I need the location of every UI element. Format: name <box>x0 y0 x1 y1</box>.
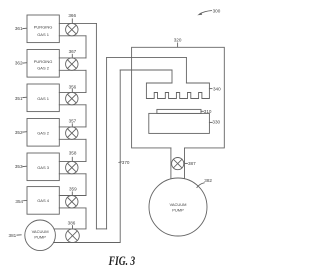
gas source box 361 (PURGING GAS 1) <box>27 15 59 43</box>
svg-text:FIG. 3: FIG. 3 <box>108 253 136 268</box>
svg-text:PURGING: PURGING <box>34 59 53 64</box>
leader dash for label 381 <box>17 234 21 236</box>
svg-text:366: 366 <box>68 13 76 18</box>
svg-text:357: 357 <box>69 119 77 124</box>
svg-text:358: 358 <box>69 150 77 155</box>
leader dash for label 310 <box>201 110 203 112</box>
wire: manifold riser left wall segment 1 <box>85 36 87 58</box>
svg-text:GAS 1: GAS 1 <box>37 96 50 101</box>
wire: pipe 370 left wall <box>106 58 108 229</box>
showerhead 340 stem left wall <box>171 70 173 83</box>
svg-text:PUMP: PUMP <box>172 207 184 212</box>
wire: manifold riser left wall segment 4 <box>85 139 87 161</box>
gas source box 351 (GAS 1) <box>27 84 59 112</box>
leader dash for label 352 <box>23 131 27 133</box>
wire: branch pipe 3 bottom wall <box>59 104 86 106</box>
wire: chamber feed pipe bottom wall <box>120 69 172 71</box>
leader dash for label 362 <box>23 62 27 64</box>
wire: branch pipe 6 bottom wall <box>59 207 86 209</box>
svg-text:381: 381 <box>9 233 17 238</box>
svg-text:GAS 2: GAS 2 <box>37 131 50 136</box>
leader dash for label 330 <box>209 121 212 123</box>
process chamber 320 outline <box>132 47 225 148</box>
svg-text:310: 310 <box>204 109 212 114</box>
gas source box 362 (PURGING GAS 2) <box>27 50 59 78</box>
gas source box 352 (GAS 2) <box>27 119 59 147</box>
leader dash for label 387 <box>185 162 188 164</box>
svg-text:GAS 3: GAS 3 <box>37 165 50 170</box>
leader dash for label 361 <box>23 27 27 29</box>
wire: manifold riser left wall segment 3 <box>85 105 87 127</box>
leader dash for label 351 <box>23 96 27 98</box>
svg-text:361: 361 <box>15 26 23 31</box>
valve 366 <box>66 19 78 36</box>
wire: branch pipe 2 top wall <box>59 57 86 59</box>
svg-text:330: 330 <box>212 120 220 125</box>
svg-text:GAS 2: GAS 2 <box>37 65 50 70</box>
wire: chamber exhaust neck right wall <box>184 148 186 180</box>
svg-text:386: 386 <box>68 220 76 225</box>
wire: branch pipe 1 bottom wall <box>59 35 86 37</box>
wire: chamber exhaust neck left wall <box>170 148 172 179</box>
valve 356 <box>66 89 78 105</box>
svg-text:367: 367 <box>69 49 77 54</box>
valve 359 <box>66 192 78 208</box>
wire: bottom cap between riser and pipe 370 <box>96 228 106 230</box>
wire: manifold riser left wall segment 6 + pump pipe top wall <box>54 208 86 229</box>
svg-text:340: 340 <box>213 87 221 92</box>
svg-text:362: 362 <box>15 61 23 66</box>
wire: branch pipe 5 top wall <box>59 160 86 162</box>
vacuum pump 381 circle <box>25 220 56 251</box>
svg-text:382: 382 <box>204 178 212 183</box>
leader dash for label 353 <box>23 165 27 167</box>
substrate 310 <box>157 109 201 113</box>
vacuum pump 382 circle <box>149 178 207 236</box>
wire: manifold riser left wall segment 5 <box>85 174 87 196</box>
valve 387 <box>172 158 184 170</box>
showerhead 340 body with nozzles <box>146 83 209 99</box>
svg-text:VACUUM: VACUUM <box>169 202 186 207</box>
wire: chamber feed pipe top wall <box>107 57 187 59</box>
leader curve for label 382 <box>197 183 204 188</box>
gas source box 354 (GAS 4) <box>27 187 59 215</box>
svg-text:354: 354 <box>15 199 23 204</box>
wire: branch pipe 2 bottom wall <box>59 69 86 71</box>
gas source box 353 (GAS 3) <box>27 153 59 181</box>
wire: bottom pipe bottom wall + pipe 370 right wall <box>54 70 121 243</box>
svg-text:320: 320 <box>174 38 182 43</box>
svg-text:PURGING: PURGING <box>34 25 53 30</box>
svg-text:387: 387 <box>188 161 196 166</box>
valve 357 <box>66 124 78 140</box>
wire: branch pipe 4 bottom wall <box>59 138 86 140</box>
svg-text:353: 353 <box>15 164 23 169</box>
svg-text:GAS 4: GAS 4 <box>37 198 50 203</box>
wire: branch pipe 4 top wall <box>59 126 86 128</box>
wire: manifold riser right wall <box>95 23 97 229</box>
svg-text:356: 356 <box>69 84 77 89</box>
svg-text:370: 370 <box>122 160 130 165</box>
valve 386 <box>66 226 80 243</box>
wire: manifold riser left wall segment 2 <box>85 70 87 92</box>
svg-text:GAS 1: GAS 1 <box>37 32 50 37</box>
svg-text:359: 359 <box>69 186 77 191</box>
valve 367 <box>66 54 78 70</box>
susceptor 330 <box>149 113 210 133</box>
leader arrow for label 300 <box>200 11 212 14</box>
leader dash for label 354 <box>24 200 27 202</box>
svg-text:352: 352 <box>15 130 23 135</box>
wire: branch pipe 1 top wall (box 361 to riser cap) <box>59 22 96 24</box>
wire: branch pipe 5 bottom wall <box>59 173 86 175</box>
leader dash for label 340 <box>209 88 212 90</box>
showerhead 340 stem right wall <box>185 58 187 83</box>
valve 358 <box>66 157 78 174</box>
svg-text:PUMP: PUMP <box>34 234 46 239</box>
svg-text:351: 351 <box>15 96 23 101</box>
svg-text:300: 300 <box>213 9 221 14</box>
wire: branch pipe 3 top wall <box>59 91 86 93</box>
leader dash for label 370 <box>119 161 122 164</box>
wire: branch pipe 6 top wall <box>59 195 86 197</box>
node: chamber label 320 tick <box>177 43 179 47</box>
